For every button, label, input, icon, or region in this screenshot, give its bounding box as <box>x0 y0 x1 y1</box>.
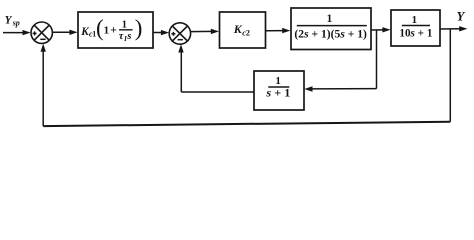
svg-text:1: 1 <box>122 19 127 30</box>
svg-text:+: + <box>110 25 117 37</box>
svg-text:(2s + 1)(5s + 1): (2s + 1)(5s + 1) <box>294 26 367 40</box>
svg-text:1: 1 <box>104 25 110 37</box>
block process G1 (2s+1)(5s+1) <box>291 8 371 50</box>
wire G1 to G2 <box>371 27 391 32</box>
svg-text:Y: Y <box>457 10 466 24</box>
svg-text:sp: sp <box>12 19 20 28</box>
svg-text:s: s <box>126 31 131 42</box>
svg-text:): ) <box>135 15 143 40</box>
wire junction 2 to block Kc2 <box>191 29 219 34</box>
wire block H to inner riser <box>181 91 254 93</box>
svg-text:s + 1: s + 1 <box>265 85 290 99</box>
block process G2 10s+1 <box>391 10 440 46</box>
svg-text:1: 1 <box>327 13 333 25</box>
svg-text:τ: τ <box>119 31 124 42</box>
wire block PI to junction 2 <box>153 30 169 35</box>
block H feedback s+1 <box>254 71 304 110</box>
svg-text:2: 2 <box>246 28 250 38</box>
block Kc2 <box>220 12 266 48</box>
wire inner feedback riser to junction 2 <box>178 44 183 92</box>
svg-text:1: 1 <box>412 14 418 26</box>
summing junction 1 <box>31 22 52 43</box>
wire input Ysp arrow <box>3 30 31 35</box>
wire outer feedback riser to junction 1 <box>41 44 46 127</box>
wire inner feedback to block H <box>304 86 376 91</box>
node Ysp label <box>5 15 20 28</box>
svg-text:10s + 1: 10s + 1 <box>399 26 432 40</box>
wire Kc2 to process block G1 <box>266 28 291 33</box>
wire outer feedback drop <box>449 29 451 122</box>
svg-text:(: ( <box>96 15 104 40</box>
wire junction1 to block PI <box>52 30 77 35</box>
wire output Y with arrow <box>440 26 467 31</box>
summing junction 2 <box>169 23 190 44</box>
wire inner feedback drop from tap <box>376 30 378 89</box>
wire outer feedback bottom <box>43 122 450 126</box>
block Kc1 PI controller <box>78 12 153 48</box>
svg-text:Y: Y <box>5 15 13 27</box>
